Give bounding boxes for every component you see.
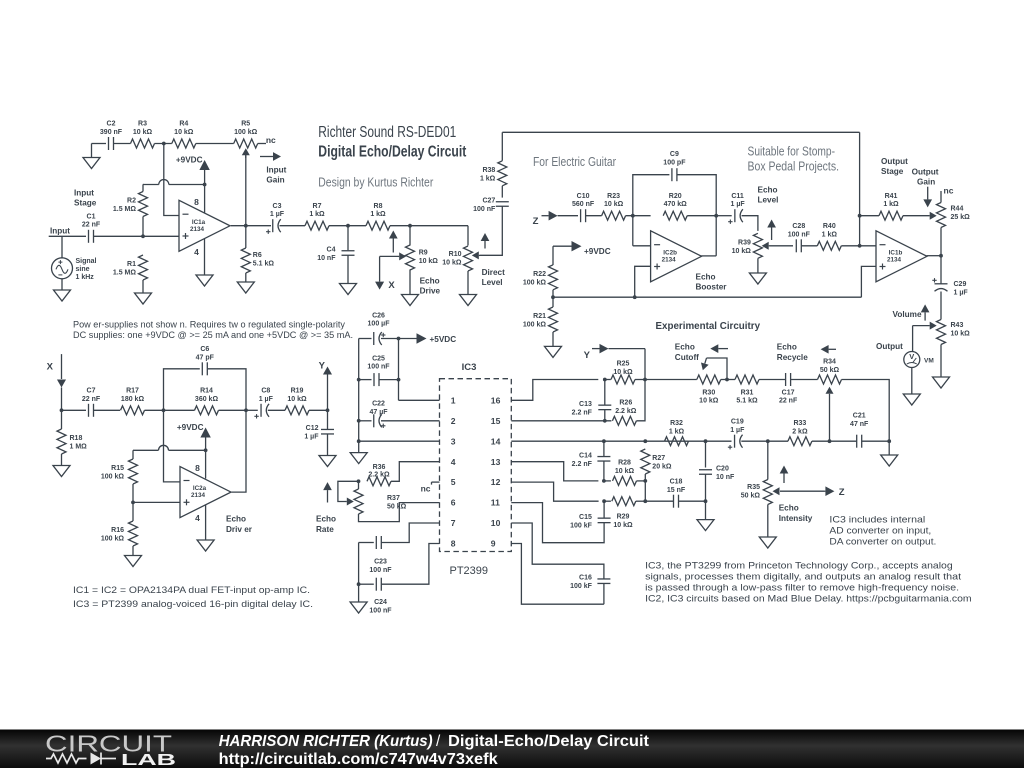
resistor R17: [121, 388, 145, 415]
svg-text:100 nF: 100 nF: [369, 567, 392, 574]
wire pin8 IC1a: [204, 185, 206, 213]
svg-text:180 kΩ: 180 kΩ: [121, 396, 145, 403]
note PT3299 paragraph: [645, 560, 972, 603]
wire rail5 left: [358, 339, 360, 453]
wire R28 right: [637, 480, 646, 482]
svg-text:C22: C22: [372, 401, 385, 408]
node C14 bottom: [602, 479, 606, 483]
ground C20: [697, 520, 714, 531]
svg-text:VM: VM: [924, 357, 934, 364]
footer url: [219, 751, 499, 768]
node C25 right: [397, 378, 401, 382]
wiper R10: [472, 251, 503, 259]
supply +5VDC: [399, 333, 457, 344]
label Echo Recycle: [777, 343, 808, 362]
arrow Echo Cutoff: [710, 344, 728, 353]
svg-text:100 nF: 100 nF: [788, 231, 811, 238]
svg-text:1 kΩ: 1 kΩ: [370, 211, 386, 218]
resistor R6: [241, 248, 274, 273]
wire R2 bottom: [142, 217, 144, 237]
wire R38 top: [501, 132, 503, 161]
svg-text:Z: Z: [533, 216, 539, 227]
svg-text:4: 4: [194, 247, 199, 257]
wire R44 bottom: [940, 228, 942, 285]
wire R4 to R5: [196, 143, 234, 145]
svg-text:Output: Output: [881, 157, 908, 166]
footer bar: [0, 730, 1024, 768]
wiper R9: [380, 252, 407, 260]
capacitor C24: [369, 578, 392, 615]
svg-text:47 pF: 47 pF: [196, 354, 215, 361]
resistor R8: [366, 203, 390, 230]
capacitor C9: [663, 151, 686, 181]
svg-text:100 kΩ: 100 kΩ: [523, 322, 547, 329]
node pin3 rail: [357, 439, 361, 443]
svg-text:Output: Output: [912, 168, 939, 177]
resistor R32: [665, 420, 689, 446]
wire R8 to corner: [390, 225, 468, 227]
label +9VDC IC1a: [176, 156, 203, 165]
wire C14 to R28: [604, 480, 611, 482]
wire C28 to R40: [801, 245, 817, 247]
label Signal sine 1 kHz: [76, 258, 97, 281]
svg-text:Echo: Echo: [779, 504, 799, 513]
resistor R28: [613, 460, 637, 486]
svg-text:X: X: [388, 280, 395, 291]
capacitor C14: [572, 441, 611, 468]
node R1-R2-plus: [141, 234, 145, 238]
op-amp IC2a: [180, 463, 231, 523]
wire R31 to C17: [759, 379, 786, 381]
ground R9: [402, 295, 419, 306]
svg-text:IC2a: IC2a: [193, 485, 207, 492]
svg-text:1 kΩ: 1 kΩ: [822, 231, 838, 238]
wiper R39: [762, 242, 793, 250]
svg-text:1 µF: 1 µF: [954, 290, 969, 297]
svg-text:2: 2: [451, 416, 456, 426]
label Echo Intensity: [779, 504, 813, 523]
svg-text:C18: C18: [670, 478, 683, 485]
wire feedback top right: [677, 175, 716, 256]
svg-text:10 kΩ: 10 kΩ: [613, 522, 633, 529]
svg-text:C6: C6: [200, 346, 209, 353]
svg-text:C27: C27: [482, 198, 495, 205]
svg-text:1 µF: 1 µF: [731, 201, 746, 208]
logo zigzag diode: [46, 753, 116, 765]
svg-text:DA converter on output.: DA converter on output.: [829, 537, 936, 547]
svg-text:LAB: LAB: [121, 752, 176, 768]
resistor R2: [113, 192, 148, 217]
label Input Gain: [266, 166, 286, 185]
wire wiper to VM: [912, 326, 914, 352]
wire C29 to R43: [940, 292, 942, 320]
svg-text:For Electric Guitar: For Electric Guitar: [533, 155, 616, 169]
wire R16 top: [132, 502, 134, 521]
svg-text:2.2 kΩ: 2.2 kΩ: [615, 408, 637, 415]
stub pin5 nc: [421, 482, 440, 493]
capacitor C27: [473, 198, 509, 214]
svg-text:R23: R23: [607, 193, 620, 200]
ground C2: [83, 144, 100, 169]
node R15 R16 plus: [131, 501, 135, 505]
svg-text:Richter Sound RS-DED01: Richter Sound RS-DED01: [318, 124, 456, 141]
resistor R7: [305, 203, 329, 230]
wire node to C8: [246, 409, 258, 411]
svg-text:Output: Output: [876, 342, 903, 351]
wire C25 right lead: [379, 379, 399, 381]
wire pin12 riser: [511, 482, 598, 501]
hop rail IC2a: [159, 445, 169, 450]
wire R14 to node: [219, 409, 247, 411]
svg-text:10 nF: 10 nF: [317, 255, 336, 262]
node R36 R37: [357, 479, 361, 483]
wire pin1: [399, 399, 440, 401]
svg-text:10 kΩ: 10 kΩ: [615, 468, 635, 475]
svg-text:+9VDC: +9VDC: [584, 247, 611, 256]
node plus rail IC2b: [633, 295, 637, 299]
svg-text:5.1 kΩ: 5.1 kΩ: [736, 398, 758, 405]
net Z dest: [533, 211, 578, 227]
svg-text:Design by Kurtus Richter: Design by Kurtus Richter: [318, 175, 433, 189]
svg-text:R22: R22: [533, 271, 546, 278]
wire R26 right riser: [636, 349, 645, 421]
svg-text:2134: 2134: [887, 256, 902, 263]
wire plus IC2b: [635, 266, 651, 297]
svg-text:1 kΩ: 1 kΩ: [309, 211, 325, 218]
svg-text:C21: C21: [853, 412, 866, 419]
svg-text:C19: C19: [731, 418, 744, 425]
svg-text:+9VDC: +9VDC: [177, 423, 204, 432]
svg-text:C15: C15: [579, 514, 592, 521]
svg-text:C3: C3: [273, 203, 282, 210]
svg-text:8: 8: [195, 463, 200, 473]
svg-text:100 kF: 100 kF: [570, 583, 593, 590]
resistor R16: [101, 521, 138, 546]
wire C23 row left: [359, 542, 374, 544]
wire R25 to node: [635, 379, 645, 381]
svg-text:R9: R9: [419, 250, 428, 257]
svg-text:Pow er-supplies not show n. Re: Pow er-supplies not show n. Requires tw …: [73, 320, 345, 330]
wire R17 to node: [145, 409, 195, 411]
svg-text:R16: R16: [111, 527, 124, 534]
arrow Echo Drive: [389, 231, 398, 253]
svg-text:1 µF: 1 µF: [730, 427, 745, 434]
capacitor C16: [570, 575, 610, 591]
svg-text:50 kΩ: 50 kΩ: [387, 504, 407, 511]
resistor R3: [131, 121, 155, 148]
svg-text:22 nF: 22 nF: [82, 222, 101, 229]
capacitor C15: [570, 514, 610, 530]
node X C7 R18: [60, 408, 64, 412]
resistor R33: [788, 420, 812, 446]
svg-text:4: 4: [451, 457, 456, 467]
capacitor C8: [254, 388, 273, 419]
capacitor C3: [266, 203, 285, 234]
resistor R41: [879, 193, 903, 220]
op-amp IC2b: [651, 231, 702, 282]
wire R7 to R8: [329, 225, 366, 227]
svg-text:10 kΩ: 10 kΩ: [287, 396, 307, 403]
node R35 takeoff: [766, 439, 770, 443]
capacitor C12: [304, 410, 334, 440]
svg-text:R30: R30: [702, 389, 715, 396]
svg-text:100 kF: 100 kF: [570, 522, 593, 529]
svg-text:Volume: Volume: [893, 310, 922, 319]
svg-text:16: 16: [491, 395, 501, 405]
svg-text:100 kΩ: 100 kΩ: [101, 536, 125, 543]
svg-text:Gain: Gain: [266, 176, 284, 185]
svg-text:Intensity: Intensity: [779, 514, 813, 523]
svg-text:DC supplies: one +9VDC @ >= 25: DC supplies: one +9VDC @ >= 25 mA and on…: [73, 330, 353, 340]
wire R3 to node: [155, 143, 172, 145]
svg-text:IC3, the PT3299 from Princeton: IC3, the PT3299 from Princeton Technolog…: [645, 560, 953, 570]
ground R10: [460, 295, 477, 306]
svg-text:R32: R32: [670, 420, 683, 427]
svg-text:C23: C23: [374, 559, 387, 566]
wire rowE right corner: [842, 380, 890, 442]
wire C26 right: [381, 338, 399, 340]
svg-text:Signal: Signal: [76, 258, 97, 265]
svg-text:Z: Z: [839, 487, 845, 498]
svg-text:10: 10: [491, 518, 501, 528]
wire R19 to node: [309, 409, 328, 411]
label nc R5: [266, 135, 276, 145]
svg-text:470 kΩ: 470 kΩ: [664, 201, 688, 208]
svg-text:47 µF: 47 µF: [369, 409, 388, 416]
svg-text:IC3 = PT2399 analog-voiced 16-: IC3 = PT2399 analog-voiced 16-pin digita…: [73, 599, 313, 610]
wire R10 top: [467, 226, 469, 246]
wire R16 bottom: [132, 546, 134, 556]
node feedback left: [631, 214, 635, 218]
capacitor C22: [369, 401, 388, 429]
arrow Echo Recycle: [821, 345, 836, 354]
wiper R34: [826, 387, 834, 441]
svg-text:15: 15: [491, 416, 501, 426]
potentiometer R34: [818, 359, 842, 384]
svg-text:9: 9: [491, 539, 496, 549]
resistor R25: [611, 361, 635, 384]
wiper arrow R5: [242, 148, 250, 226]
svg-text:1 µF: 1 µF: [304, 434, 319, 441]
svg-text:1.5 MΩ: 1.5 MΩ: [113, 206, 137, 213]
svg-text:R1: R1: [127, 261, 136, 268]
wire R10 bottom: [467, 271, 469, 295]
op-amp IC1b: [876, 231, 927, 282]
svg-text:Stage: Stage: [881, 167, 904, 176]
svg-text:Digital-Echo/Delay Circuit: Digital-Echo/Delay Circuit: [448, 733, 649, 750]
svg-text:R15: R15: [111, 465, 124, 472]
ground R6: [237, 282, 254, 293]
label Output Gain: [912, 168, 939, 187]
svg-text:1: 1: [451, 395, 456, 405]
svg-text:R20: R20: [669, 193, 682, 200]
wire R9 top: [409, 226, 411, 246]
svg-text:2134: 2134: [191, 492, 206, 499]
wire C16 bottom: [603, 584, 605, 605]
node Y C12: [326, 408, 330, 412]
resistor R29: [612, 497, 636, 530]
svg-text:2 kΩ: 2 kΩ: [792, 428, 808, 435]
svg-text:Echo: Echo: [316, 515, 336, 524]
capacitor C6: [196, 346, 215, 375]
wire R6 top: [245, 226, 247, 248]
arrow Echo Rate: [323, 482, 332, 502]
node C4: [346, 224, 350, 228]
label Echo Rate: [316, 515, 336, 534]
svg-text:4: 4: [195, 513, 200, 523]
svg-text:47 nF: 47 nF: [850, 421, 869, 428]
svg-text:2134: 2134: [190, 226, 205, 233]
svg-text:Echo: Echo: [696, 272, 716, 281]
svg-text:2.2 nF: 2.2 nF: [572, 409, 593, 416]
svg-text:C16: C16: [579, 575, 592, 582]
svg-text:50 kΩ: 50 kΩ: [741, 492, 761, 499]
capacitor C10: [572, 193, 595, 222]
potentiometer R44: [937, 203, 971, 228]
svg-text:R41: R41: [885, 193, 898, 200]
capacitor C21: [850, 412, 869, 447]
svg-text:100 nF: 100 nF: [367, 364, 390, 371]
svg-text:IC1b: IC1b: [889, 249, 903, 256]
label Echo Cutoff: [675, 343, 699, 362]
footer title: [219, 733, 649, 750]
svg-text:R44: R44: [951, 205, 964, 212]
wire pin16 riser: [511, 380, 598, 401]
svg-text:100 nF: 100 nF: [473, 206, 496, 213]
label Echo Drive: [420, 277, 441, 296]
node R3-R4: [162, 142, 166, 146]
wire R37 top: [358, 481, 360, 489]
wire pin4 IC1a: [204, 239, 206, 275]
wire rail IC1a left: [143, 184, 159, 186]
svg-text:R31: R31: [741, 389, 754, 396]
wire C15 bottom: [599, 523, 604, 543]
svg-text:R26: R26: [619, 400, 632, 407]
node C18 C20: [704, 499, 708, 503]
label +9VDC IC2a: [177, 423, 204, 432]
wire input to C1: [49, 235, 86, 237]
label Echo Driver: [226, 515, 253, 534]
capacitor C25: [367, 355, 390, 386]
svg-text:R8: R8: [374, 203, 383, 210]
svg-text:HARRISON RICHTER (Kurtus): HARRISON RICHTER (Kurtus): [219, 733, 433, 750]
svg-text:11: 11: [491, 498, 500, 508]
svg-text:Input: Input: [50, 227, 70, 236]
resistor R22: [523, 265, 558, 290]
wire row A feedback: [92, 143, 107, 145]
svg-text:C20: C20: [716, 465, 729, 472]
resistor R4: [172, 121, 196, 148]
svg-text:10 kΩ: 10 kΩ: [174, 129, 194, 136]
capacitor C17: [779, 373, 798, 405]
svg-text:R27: R27: [652, 455, 665, 462]
svg-text:R35: R35: [747, 484, 760, 491]
net Y source: [319, 360, 332, 410]
node C6 right: [244, 408, 248, 412]
svg-text:Box Pedal Projects.: Box Pedal Projects.: [748, 160, 840, 174]
ground rowF corner: [881, 441, 898, 466]
svg-text:8: 8: [194, 197, 199, 207]
svg-text:10 kΩ: 10 kΩ: [419, 258, 439, 265]
svg-text:R29: R29: [617, 514, 630, 521]
svg-text:IC1 = IC2 = OPA2134PA dual FET: IC1 = IC2 = OPA2134PA dual FET-input op-…: [73, 585, 310, 596]
svg-text:C2: C2: [107, 121, 116, 128]
capacitor C11: [728, 193, 745, 224]
wire R15 top: [132, 450, 134, 459]
capacitor C28: [788, 223, 811, 252]
capacitor C29: [932, 278, 968, 296]
ground C4: [340, 256, 357, 295]
wire R35 top: [767, 441, 769, 479]
capacitor C7: [82, 388, 101, 417]
wire C11 to R39: [742, 216, 758, 231]
ground R21: [545, 346, 562, 357]
svg-text:Input: Input: [74, 188, 94, 197]
wire plus IC1b: [861, 266, 876, 297]
svg-text:IC2b: IC2b: [663, 249, 677, 256]
potentiometer R37: [354, 489, 407, 514]
wire minus drop IC1a: [164, 144, 179, 216]
svg-text:R38: R38: [482, 167, 495, 174]
svg-text:Stage: Stage: [74, 199, 97, 208]
svg-text:100 kΩ: 100 kΩ: [523, 279, 547, 286]
voltmeter VM: [904, 352, 934, 368]
svg-text:R3: R3: [138, 121, 147, 128]
ground C12: [319, 434, 336, 467]
wire +5 riser: [398, 339, 400, 401]
svg-text:1 kΩ: 1 kΩ: [669, 428, 685, 435]
wire C22 right lead: [381, 420, 440, 422]
svg-text:10 kΩ: 10 kΩ: [442, 260, 462, 267]
IC3 dashed box: [440, 379, 512, 552]
ground R35: [759, 537, 776, 548]
wire R5 to nc: [258, 143, 266, 145]
svg-text:10 kΩ: 10 kΩ: [951, 331, 971, 338]
hop rail IC1a: [159, 180, 169, 185]
net X dest: [47, 354, 66, 410]
resistor R21: [523, 307, 558, 332]
capacitor C18: [667, 478, 686, 507]
svg-text:IC3: IC3: [462, 362, 477, 373]
svg-text:22 nF: 22 nF: [779, 398, 798, 405]
wire C25 left lead: [359, 379, 372, 381]
label Direct Level: [482, 268, 505, 287]
svg-text:Gain: Gain: [917, 178, 935, 187]
svg-text:Recycle: Recycle: [777, 353, 808, 362]
svg-text:50 kΩ: 50 kΩ: [820, 367, 840, 374]
svg-text:6: 6: [451, 498, 456, 508]
node C25 left: [357, 378, 361, 382]
node R29 R27: [643, 499, 647, 503]
label PT2399: [450, 565, 489, 577]
node C13 bottom: [603, 419, 607, 423]
svg-text:1 kΩ: 1 kΩ: [883, 201, 899, 208]
resistor R38: [480, 161, 507, 186]
svg-text:C12: C12: [306, 425, 319, 432]
svg-text:2.2 nF: 2.2 nF: [572, 461, 593, 468]
node R41 takeoff: [858, 214, 862, 218]
title line 2: [318, 144, 466, 161]
wire C1 to plus: [94, 235, 180, 237]
net X source: [375, 256, 395, 291]
node IC1b minus: [858, 244, 862, 248]
wire C7 to R17: [94, 409, 121, 411]
svg-text:R28: R28: [618, 460, 631, 467]
svg-text:C17: C17: [782, 389, 795, 396]
svg-text:Echo: Echo: [777, 343, 797, 352]
wire pin14 line: [511, 440, 665, 442]
svg-text:C1: C1: [87, 213, 96, 220]
